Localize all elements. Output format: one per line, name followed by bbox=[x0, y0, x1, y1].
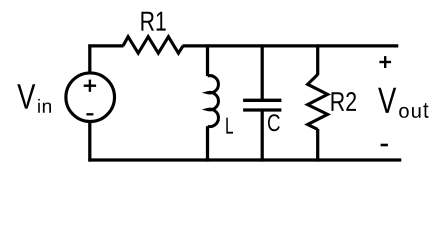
output minus sign bbox=[381, 144, 388, 147]
label Vin bbox=[17, 84, 51, 113]
wire: left vertical from top wire to source + terminal bbox=[88, 44, 91, 74]
label L bbox=[226, 118, 233, 134]
capacitor C bottom plate bbox=[243, 108, 281, 111]
inductor L coil (3 humps) bbox=[208, 76, 219, 127]
wire: capacitor branch bottom lead bbox=[261, 110, 264, 162]
label C bbox=[268, 114, 280, 131]
wire: R2 branch bottom lead bbox=[316, 129, 319, 162]
wire: top horizontal, R1 right lead to Vout+ end bbox=[183, 44, 399, 47]
label R2 bbox=[332, 92, 357, 111]
wire: bottom horizontal net (return) bbox=[88, 158, 401, 161]
label Vout bbox=[378, 88, 428, 118]
wire: inductor branch bottom lead bbox=[206, 126, 209, 161]
voltage source minus sign bbox=[86, 113, 93, 115]
wire: R2 branch top lead bbox=[316, 44, 319, 75]
output plus sign bbox=[379, 56, 391, 68]
capacitor C top plate bbox=[243, 99, 281, 102]
wire: inductor branch top lead bbox=[206, 44, 209, 76]
resistor R1 zigzag bbox=[123, 37, 183, 54]
resistor R2 zigzag bbox=[308, 75, 328, 130]
voltage source V1 circle bbox=[66, 73, 115, 122]
wire: top horizontal, source corner to R1 left lead bbox=[88, 44, 123, 47]
label R1 bbox=[141, 12, 165, 31]
wire: left vertical from source - terminal to bottom wire bbox=[88, 121, 91, 162]
wire: capacitor branch top lead bbox=[261, 44, 264, 100]
voltage source plus sign bbox=[84, 80, 96, 92]
